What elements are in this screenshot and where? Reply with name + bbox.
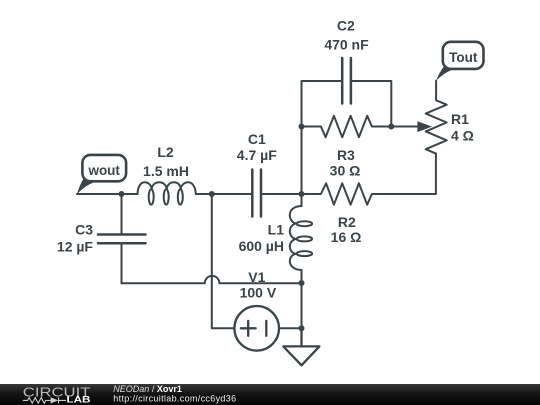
wire node A2 vertical to R3/C2 (301, 127, 303, 195)
bottom wire with hop over V1 branch (122, 276, 302, 283)
svg-text:16 Ω: 16 Ω (331, 229, 362, 245)
svg-text:12 µF: 12 µF (57, 239, 94, 255)
wire wout to node A (77, 193, 122, 195)
svg-text:100 V: 100 V (240, 285, 277, 301)
svg-text:R1: R1 (451, 111, 469, 127)
wire V1 branch vertical (212, 194, 235, 328)
wiper wire (391, 126, 418, 128)
voltage source V1 (234, 306, 279, 351)
callout wout (77, 155, 126, 195)
node dot B (209, 191, 215, 197)
svg-text:NEODan / Xovr1: NEODan / Xovr1 (113, 384, 182, 394)
svg-text:L1: L1 (268, 222, 285, 238)
capacitor C2 (342, 58, 351, 104)
svg-text:V1: V1 (248, 269, 265, 285)
node dot E (R3/C2 right) (388, 124, 394, 130)
svg-text:L2: L2 (157, 144, 174, 160)
potentiometer R1 (426, 81, 447, 154)
node dot C (299, 191, 305, 197)
svg-text:470 nF: 470 nF (324, 37, 369, 53)
wire L1 column (301, 283, 303, 328)
ground (283, 328, 319, 365)
svg-text:LAB: LAB (67, 395, 91, 405)
callout Tout (436, 42, 483, 81)
logo resistor zigzag + diode (23, 397, 66, 403)
capacitor C1 (212, 193, 302, 195)
inductor L2 (122, 193, 212, 195)
svg-text:600 µH: 600 µH (239, 238, 284, 254)
wiper arrowhead (417, 121, 432, 132)
C2 loop wires (302, 81, 392, 127)
node dot F (L1 bottom) (299, 280, 305, 286)
svg-text:wout: wout (87, 163, 120, 178)
svg-text:1.5 mH: 1.5 mH (143, 163, 189, 179)
resistor R2 (302, 154, 436, 205)
svg-text:4.7 µF: 4.7 µF (237, 147, 277, 163)
node dot G (V1 right) (299, 325, 305, 331)
svg-text:http://circuitlab.com/cc6yd36: http://circuitlab.com/cc6yd36 (113, 394, 236, 404)
svg-text:30 Ω: 30 Ω (330, 163, 361, 179)
wire node A down to C3 (121, 194, 123, 235)
node dot D (R3/C2 left) (299, 124, 305, 130)
node dot A (119, 191, 125, 197)
svg-text:4 Ω: 4 Ω (451, 128, 474, 144)
svg-text:R2: R2 (338, 214, 356, 230)
svg-text:R3: R3 (337, 147, 355, 163)
svg-text:C2: C2 (337, 18, 355, 34)
inductor L1 (301, 194, 303, 283)
logo diode triangle (51, 397, 59, 403)
svg-text:C3: C3 (75, 222, 93, 238)
resistor R3 (302, 116, 392, 137)
svg-text:Tout: Tout (449, 50, 478, 65)
svg-text:C1: C1 (248, 131, 266, 147)
capacitor C3 (98, 235, 146, 244)
